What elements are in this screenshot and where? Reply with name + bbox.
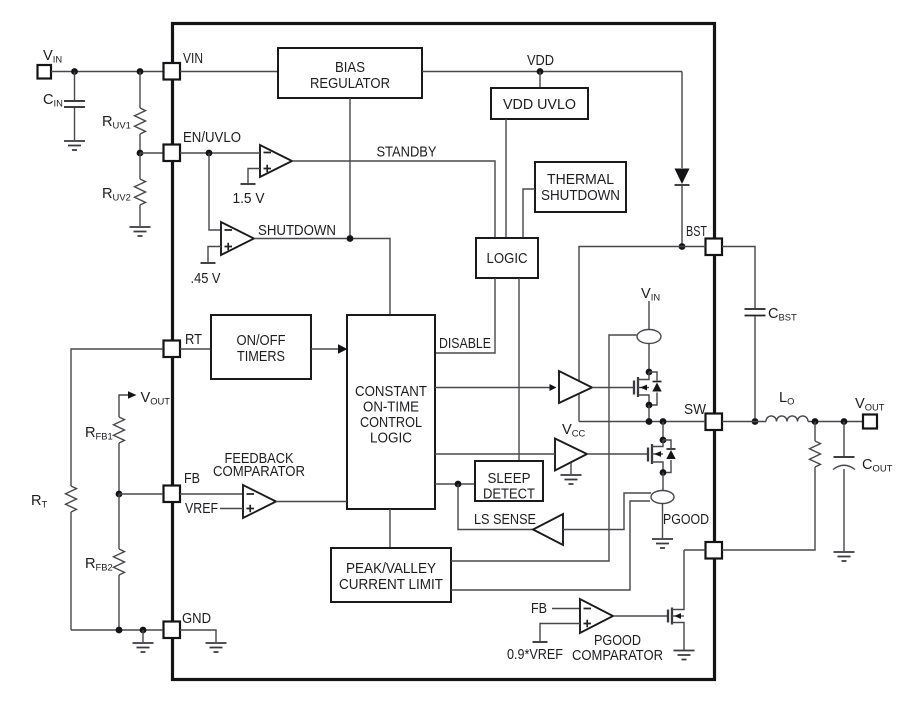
svg-text:ON-TIME: ON-TIME: [363, 400, 419, 416]
wire LOGIC to DISABLE: [435, 278, 495, 353]
junction dot VDD tap: [537, 68, 544, 75]
svg-text:VDD: VDD: [527, 53, 554, 69]
wire driver to high-side gate: [592, 387, 634, 389]
wire VDD to VDD UVLO: [539, 72, 541, 89]
svg-text:GND: GND: [182, 611, 211, 627]
block THERMAL SHUTDOWN: [535, 162, 626, 212]
wire BIAS REGULATOR to VDD rail: [422, 71, 682, 73]
wire VDD UVLO to LOGIC: [505, 119, 507, 238]
wire COT logic to SLEEP DETECT: [435, 483, 475, 485]
pin RT: [164, 341, 181, 358]
svg-text:PGOOD: PGOOD: [594, 633, 641, 649]
resistor PGOOD pull-up: [814, 422, 816, 442]
op-amp shutdown comparator .45V: [221, 222, 254, 255]
block ON/OFF TIMERS: [211, 315, 311, 379]
wire COT logic to PEAK/VALLEY: [389, 509, 391, 548]
svg-text:CURRENT LIMIT: CURRENT LIMIT: [339, 577, 443, 593]
wire pgood comparator to pgood FET gate: [613, 615, 668, 617]
pin BST: [706, 239, 723, 256]
node VIN input terminal: [38, 65, 52, 79]
svg-text:BIAS: BIAS: [335, 60, 365, 76]
ground below COUT: [834, 552, 855, 561]
wire GND pin to internal ground: [180, 630, 216, 642]
svg-text:COMPARATOR: COMPARATOR: [572, 648, 663, 664]
resistor RT external: [71, 349, 163, 486]
op-amp high-side gate driver: [559, 371, 592, 403]
wire EN/UVLO pin to comparator: [180, 152, 260, 154]
wire BST pin to CBST: [722, 247, 755, 309]
wire LS SENSE input: [563, 493, 651, 530]
svg-text:ON/OFF: ON/OFF: [237, 333, 286, 349]
svg-text:LS SENSE: LS SENSE: [474, 512, 536, 528]
op-amp EN comparator 1.5V: [260, 145, 292, 177]
pin GND: [164, 622, 181, 639]
svg-text:SLEEP: SLEEP: [488, 471, 531, 487]
svg-text:RT: RT: [185, 332, 202, 348]
ground below CIN: [64, 141, 85, 150]
reference .45 V: [208, 247, 221, 263]
block VDD UVLO: [491, 88, 588, 119]
junction dot EN branch: [206, 150, 213, 157]
pin VIN: [164, 63, 181, 80]
op-amp LS SENSE amplifier: [533, 514, 563, 545]
inductor LO: [766, 416, 808, 422]
op-amp low-side gate driver VCC: [555, 439, 587, 471]
block LOGIC: [476, 238, 538, 278]
block BIAS REGULATOR: [278, 48, 422, 98]
svg-text:TIMERS: TIMERS: [237, 349, 285, 365]
junction dot divider ground: [116, 627, 123, 634]
pin FB: [164, 486, 181, 503]
svg-text:FB: FB: [531, 601, 547, 617]
ground below VCC driver: [570, 463, 572, 474]
svg-text:FB: FB: [184, 471, 200, 487]
wire inductor to VOUT terminal: [808, 421, 863, 423]
junction dot FB node: [116, 491, 123, 498]
node VOUT arrow on feedback divider: [119, 395, 128, 417]
wire LS SENSE output up to sleep node: [458, 484, 533, 530]
svg-text:LOGIC: LOGIC: [370, 431, 412, 447]
pin EN/UVLO: [164, 145, 181, 162]
wire COT logic to VCC driver: [435, 453, 555, 455]
wire VIN terminal to VIN pin: [51, 71, 163, 73]
junction dot ground symbol tap: [140, 627, 147, 634]
junction dot EN node: [137, 150, 144, 157]
svg-text:THERMAL: THERMAL: [547, 172, 614, 188]
wire PEAK/VALLEY to low-side sense: [451, 501, 650, 590]
wire LOGIC to SLEEP DETECT: [518, 278, 520, 461]
transistor low-side NMOS: [660, 437, 667, 444]
wire RT pin to ON/OFF TIMERS: [180, 348, 211, 350]
wire BIAS REGULATOR down to shutdown net: [349, 98, 351, 239]
svg-text:SHUTDOWN: SHUTDOWN: [541, 188, 620, 204]
node VOUT output terminal: [863, 415, 877, 429]
svg-text:0.9*VREF: 0.9*VREF: [507, 647, 563, 663]
wire ON/OFF TIMERS to COT logic with arrow: [311, 348, 339, 350]
junction dot sleep/ls-sense: [455, 481, 462, 488]
svg-text:SW: SW: [684, 402, 706, 418]
wire EN node to EN/UVLO pin: [140, 152, 163, 154]
block SLEEP DETECT: [475, 461, 543, 501]
junction dot CBST to SW: [752, 418, 759, 425]
svg-text:CONTROL: CONTROL: [360, 415, 422, 431]
transistor high-side NMOS: [646, 369, 653, 376]
wire high-side source to SW rail: [648, 405, 650, 422]
block CONSTANT ON-TIME CONTROL LOGIC: [347, 315, 435, 509]
svg-text:REGULATOR: REGULATOR: [310, 76, 390, 92]
junction dot BST node: [679, 243, 686, 250]
op-amp PGOOD comparator: [580, 599, 613, 633]
reference 1.5 V: [248, 169, 260, 184]
wire FB node to FB pin: [119, 493, 163, 495]
op-amp feedback comparator: [243, 485, 276, 518]
resistor RUV1: [139, 72, 141, 109]
capacitor COUT: [843, 422, 845, 457]
svg-text:.45 V: .45 V: [191, 271, 221, 287]
pin PGOOD: [706, 542, 723, 559]
capacitor CIN: [74, 72, 76, 101]
svg-text:LOGIC: LOGIC: [487, 251, 528, 267]
svg-text:DISABLE: DISABLE: [439, 336, 491, 352]
ground below low-side sense: [652, 539, 673, 548]
wire BST node to BST pin: [682, 246, 706, 248]
junction dot CIN tap: [71, 68, 78, 75]
wire EN branch to shutdown comparator: [209, 153, 221, 230]
svg-text:PGOOD: PGOOD: [663, 512, 709, 528]
diode bootstrap: [681, 72, 683, 169]
svg-text:DETECT: DETECT: [483, 487, 535, 503]
current source low-side sense: [662, 473, 664, 491]
wire BST node to driver rail: [579, 247, 682, 422]
svg-text:SHUTDOWN: SHUTDOWN: [258, 223, 336, 239]
svg-text:CONSTANT: CONSTANT: [355, 384, 427, 400]
wire THERMAL SHUTDOWN to LOGIC: [523, 189, 535, 238]
wire SW to low-side drain: [662, 422, 664, 441]
reference 0.9*VREF: [540, 624, 580, 642]
junction dot SW a: [646, 418, 653, 425]
wire SW pin to inductor: [722, 421, 766, 423]
ground below RUV2: [130, 227, 151, 236]
wire VCC driver to low-side gate: [587, 453, 648, 455]
svg-text:EN/UVLO: EN/UVLO: [183, 130, 241, 146]
junction dot pgood pull-up: [812, 418, 819, 425]
svg-text:VIN: VIN: [183, 51, 203, 67]
capacitor CBST: [745, 309, 766, 316]
junction dot COUT tap: [841, 418, 848, 425]
svg-text:BST: BST: [686, 224, 707, 240]
wire COT logic to high-side driver with arrow: [435, 387, 550, 389]
block PEAK/VALLEY CURRENT LIMIT: [331, 548, 451, 602]
wire VIN pin to BIAS REGULATOR: [180, 71, 278, 73]
wire feedback comparator to COT logic: [276, 501, 347, 503]
svg-text:1.5 V: 1.5 V: [233, 191, 265, 207]
resistor RFB1: [114, 417, 125, 443]
junction dot SW b: [660, 418, 667, 425]
junction dot RUV1 tap: [137, 68, 144, 75]
svg-text:VDD UVLO: VDD UVLO: [503, 97, 576, 113]
wire STANDBY: [292, 161, 495, 238]
wire SW rail: [579, 421, 706, 423]
svg-text:VREF: VREF: [185, 501, 218, 517]
wire FB to pgood comparator: [552, 608, 580, 610]
wire PEAK/VALLEY to high-side sense rail: [451, 335, 637, 561]
svg-text:STANDBY: STANDBY: [377, 145, 437, 161]
wire SHUTDOWN: [254, 239, 390, 316]
resistor RFB2: [118, 494, 120, 549]
wire FB pin to feedback comparator: [180, 493, 243, 495]
svg-text:PEAK/VALLEY: PEAK/VALLEY: [346, 561, 436, 577]
ground below PGOOD FET: [674, 651, 695, 660]
resistor RUV2: [139, 153, 141, 179]
wire ground bus to GND pin: [71, 629, 163, 631]
junction dot shutdown/bias: [347, 235, 354, 242]
transistor PGOOD open-drain NMOS: [667, 610, 669, 623]
ground right of GND pin: [206, 643, 227, 652]
svg-text:COMPARATOR: COMPARATOR: [213, 464, 305, 480]
wire PGOOD FET drain to PGOOD pin: [684, 549, 706, 551]
pin SW: [706, 414, 723, 431]
ground left of GND pin: [142, 630, 144, 642]
IC boundary box: [173, 24, 715, 680]
current source high-side sense: [637, 330, 661, 344]
